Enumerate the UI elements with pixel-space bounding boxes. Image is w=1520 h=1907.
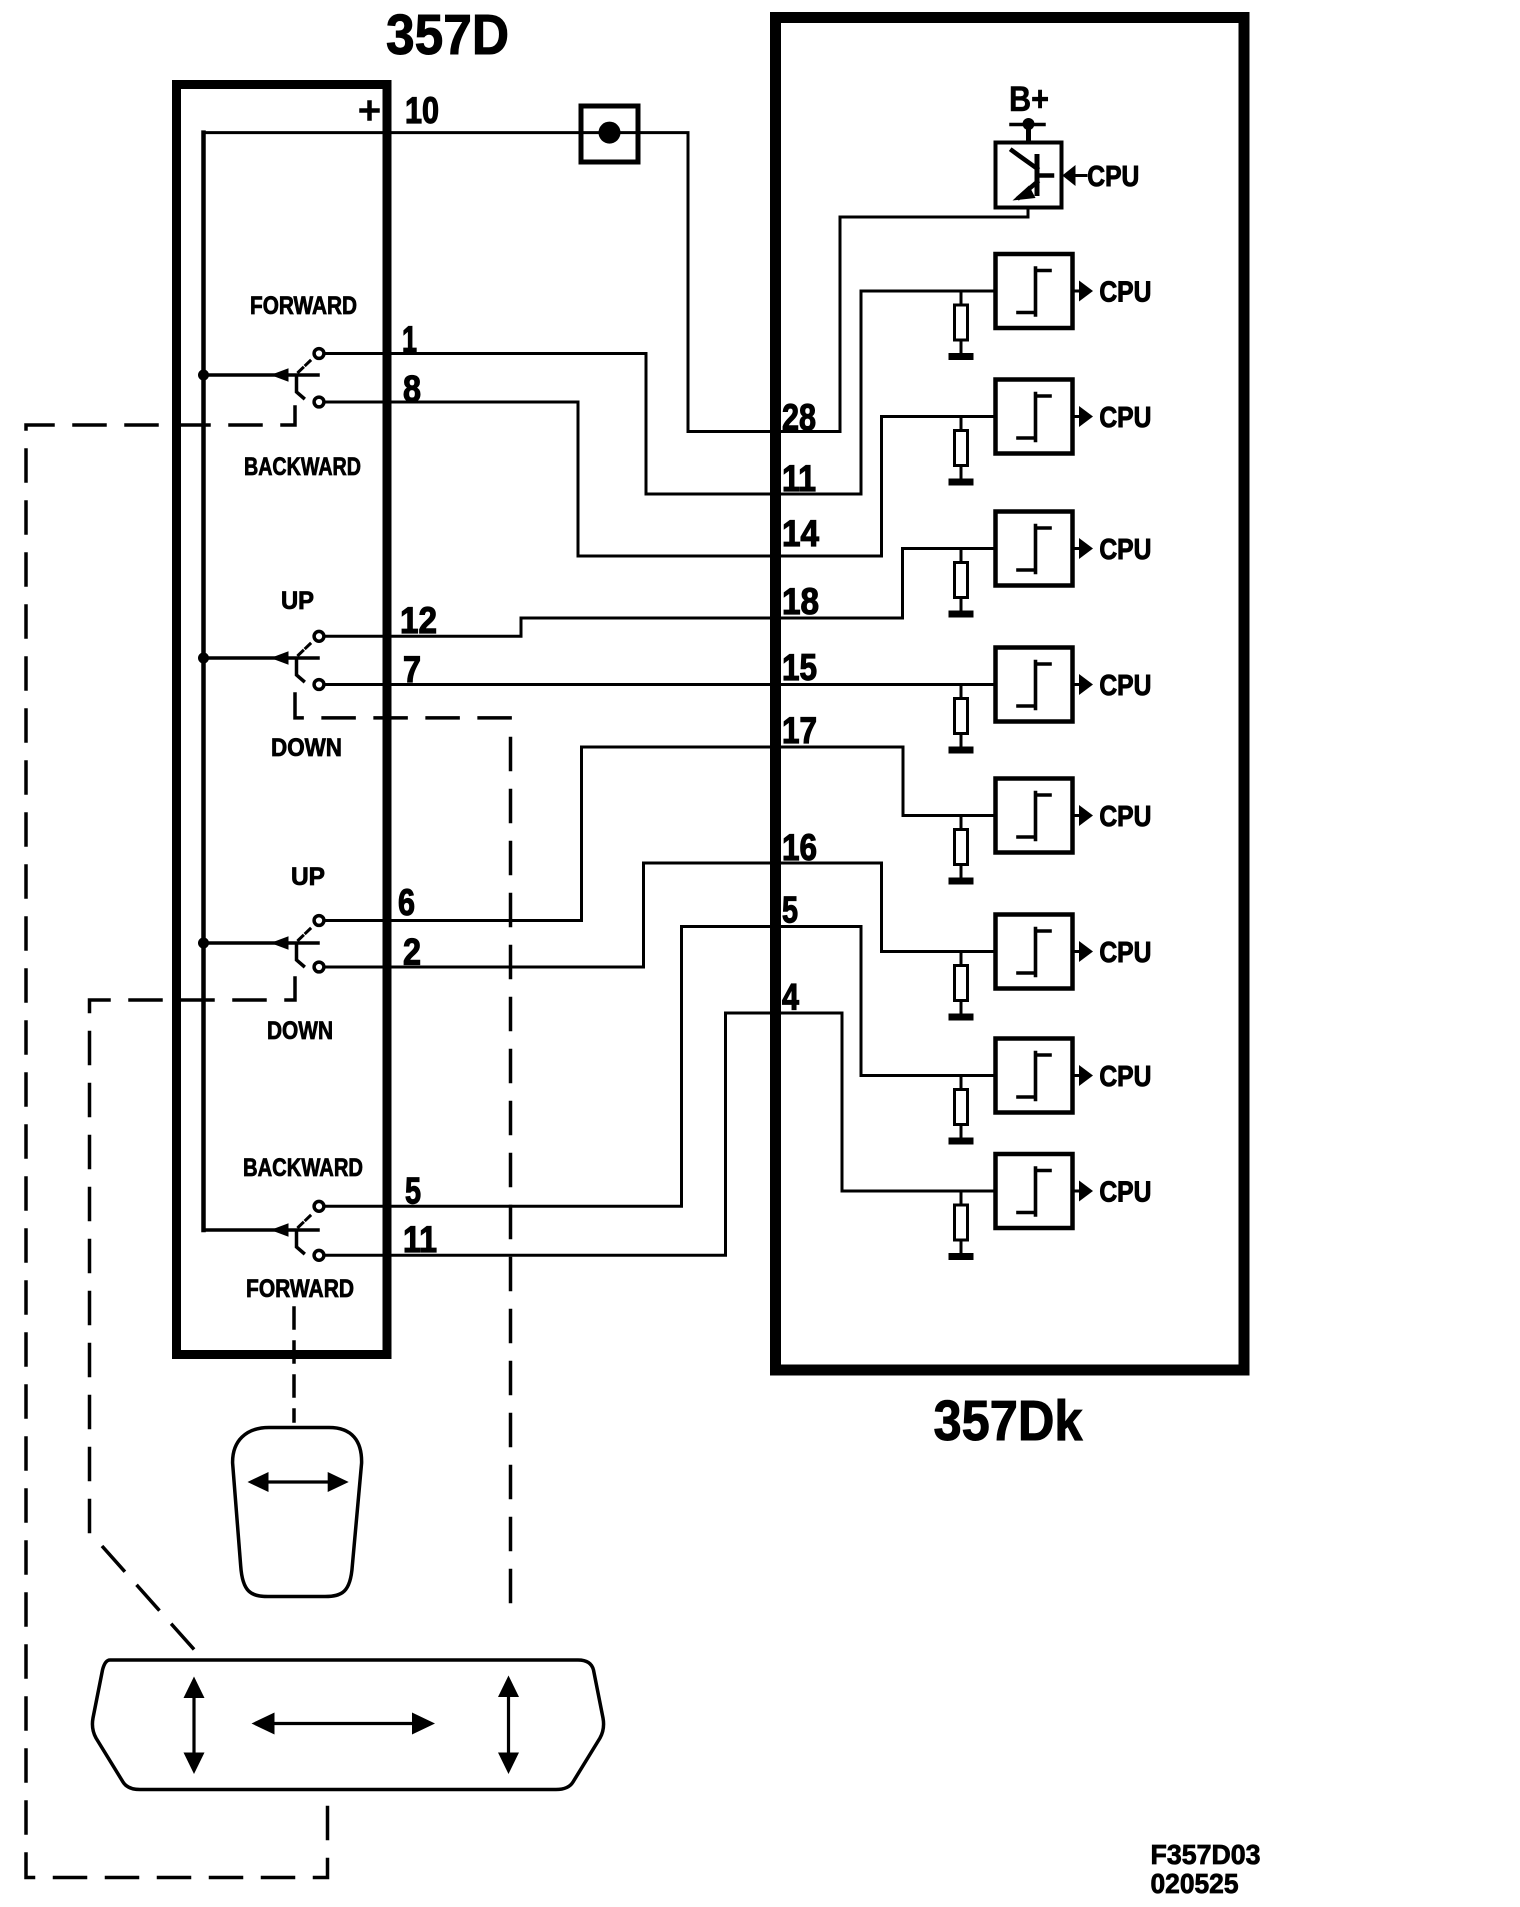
svg-text:1: 1 [402, 319, 417, 360]
svg-text:15: 15 [782, 647, 817, 688]
svg-text:CPU: CPU [1099, 1177, 1151, 1209]
transistor Q1 symbol [1012, 151, 1052, 201]
svg-text:FORWARD: FORWARD [246, 1275, 354, 1303]
resistor R7 [955, 1076, 968, 1138]
resistor R6 [955, 952, 968, 1014]
svg-text:28: 28 [782, 397, 816, 438]
connector box 357D (switch unit outline) [177, 85, 388, 1355]
svg-text:CPU: CPU [1099, 1061, 1151, 1093]
wire pin 12 to pin 18 [326, 549, 996, 637]
output arrow of U1 [1073, 281, 1094, 302]
wire pin 2 to pin 16 [326, 863, 996, 967]
schmitt trigger U6 [996, 915, 1073, 989]
svg-text:DOWN: DOWN [267, 1017, 333, 1045]
svg-text:UP: UP [291, 863, 325, 891]
switch S3 throw contact upper [314, 916, 324, 926]
svg-text:CPU: CPU [1099, 534, 1151, 566]
svg-text:8: 8 [403, 369, 421, 410]
svg-text:6: 6 [398, 882, 415, 923]
svg-text:2: 2 [403, 932, 421, 973]
wire pin 1 to pin 11 [326, 291, 996, 494]
svg-text:4: 4 [782, 977, 799, 1018]
svg-text:BACKWARD: BACKWARD [243, 1154, 363, 1182]
resistor R1 [955, 291, 968, 353]
input arrow of Q1 from CPU [1062, 165, 1086, 186]
switch S2 throw contact lower [314, 680, 324, 690]
svg-text:CPU: CPU [1099, 937, 1151, 969]
output arrow of U6 [1073, 941, 1094, 962]
switch S1 throw contact lower [314, 397, 324, 407]
svg-text:11: 11 [403, 1219, 437, 1260]
schmitt trigger U8 [996, 1154, 1073, 1228]
svg-text:12: 12 [400, 600, 437, 641]
svg-text:DOWN: DOWN [271, 734, 342, 762]
svg-text:10: 10 [405, 90, 439, 131]
output arrow of U8 [1073, 1181, 1094, 1202]
switch S3 throw contact lower [314, 962, 324, 972]
arrow left-right center in pad [252, 1713, 436, 1735]
output arrow of U2 [1073, 406, 1094, 427]
control pad shape [92, 1660, 603, 1790]
svg-text:CPU: CPU [1099, 277, 1151, 309]
ground bar of R8 [949, 1253, 974, 1260]
ground bar of R4 [949, 747, 974, 754]
dashed linkage switch S2 down [295, 694, 511, 1612]
svg-text:UP: UP [281, 587, 314, 615]
switch S4 throw contact lower [314, 1250, 324, 1260]
svg-text:CPU: CPU [1087, 161, 1139, 193]
splice connector square [581, 106, 638, 162]
switch S1 throw contact upper [314, 349, 324, 359]
svg-text:CPU: CPU [1099, 801, 1151, 833]
output arrow of U5 [1073, 805, 1094, 826]
svg-text:357Dk: 357Dk [934, 1389, 1083, 1453]
dashed linkage switch S3 to pad top-left [90, 978, 296, 1655]
svg-text:020525: 020525 [1151, 1868, 1239, 1899]
arrow left-right inside knob [248, 1472, 349, 1492]
schmitt trigger U2 [996, 380, 1073, 454]
svg-text:14: 14 [782, 513, 819, 554]
wire pin 10 to pin 28 (via splice) [204, 133, 1029, 432]
resistor R4 [955, 685, 968, 747]
schmitt trigger U1 [996, 254, 1073, 328]
svg-text:CPU: CPU [1099, 670, 1151, 702]
splice junction dot [599, 122, 621, 144]
svg-text:FORWARD: FORWARD [250, 292, 357, 320]
ground bar of R3 [949, 611, 974, 618]
switch S2 common contact [198, 642, 318, 681]
wire pin 5 to pin 5 [326, 927, 996, 1207]
control knob shape [233, 1428, 362, 1597]
switch S2 throw contact upper [314, 631, 324, 641]
schmitt trigger U4 [996, 648, 1073, 722]
svg-text:CPU: CPU [1099, 402, 1151, 434]
resistor R2 [955, 417, 968, 479]
svg-text:5: 5 [405, 1171, 421, 1212]
arrow up-down right in pad [498, 1676, 519, 1775]
switch S1 common contact [198, 359, 318, 398]
switch S4 common contact [204, 1214, 319, 1253]
schmitt trigger U3 [996, 512, 1073, 586]
wire pin 11 to pin 4 [326, 1013, 996, 1255]
transistor Q1 box [996, 143, 1062, 208]
svg-text:11: 11 [782, 458, 816, 499]
arrow up-down left in pad [184, 1677, 205, 1775]
wire pin 7 to pin 15 [326, 683, 996, 686]
svg-text:7: 7 [403, 649, 421, 690]
output arrow of U4 [1073, 674, 1094, 695]
ground bar of R6 [949, 1014, 974, 1021]
B+ terminal [1011, 118, 1044, 143]
ground bar of R1 [949, 353, 974, 360]
resistor R5 [955, 816, 968, 878]
svg-text:F357D03: F357D03 [1151, 1839, 1261, 1870]
schmitt trigger U5 [996, 779, 1073, 853]
ground bar of R5 [949, 878, 974, 885]
svg-text:BACKWARD: BACKWARD [244, 453, 361, 481]
control module box 357Dk outline [776, 18, 1245, 1371]
wire pin 8 to pin 14 [326, 402, 996, 556]
svg-text:17: 17 [782, 710, 817, 751]
svg-text:16: 16 [782, 827, 817, 868]
ground bar of R2 [949, 479, 974, 486]
svg-text:B+: B+ [1009, 80, 1049, 119]
switch S4 throw contact upper [314, 1201, 324, 1211]
ground bar of R7 [949, 1138, 974, 1145]
schmitt trigger U7 [996, 1039, 1073, 1113]
wire: internal supply bus of 357D [201, 133, 206, 1230]
svg-text:18: 18 [782, 581, 819, 622]
resistor R8 [955, 1191, 968, 1253]
switch S3 common contact [198, 927, 318, 966]
dashed linkage switch S1 to pad bottom [26, 407, 328, 1878]
dashed linkage switch S4 to knob [292, 1308, 296, 1421]
resistor R3 [955, 549, 968, 611]
wire pin 6 to pin 17 [326, 747, 996, 921]
svg-text:357D: 357D [386, 3, 509, 67]
output arrow of U3 [1073, 538, 1094, 559]
polarity mark + inside 357D [362, 103, 378, 119]
svg-text:5: 5 [782, 890, 798, 931]
output arrow of U7 [1073, 1065, 1094, 1086]
